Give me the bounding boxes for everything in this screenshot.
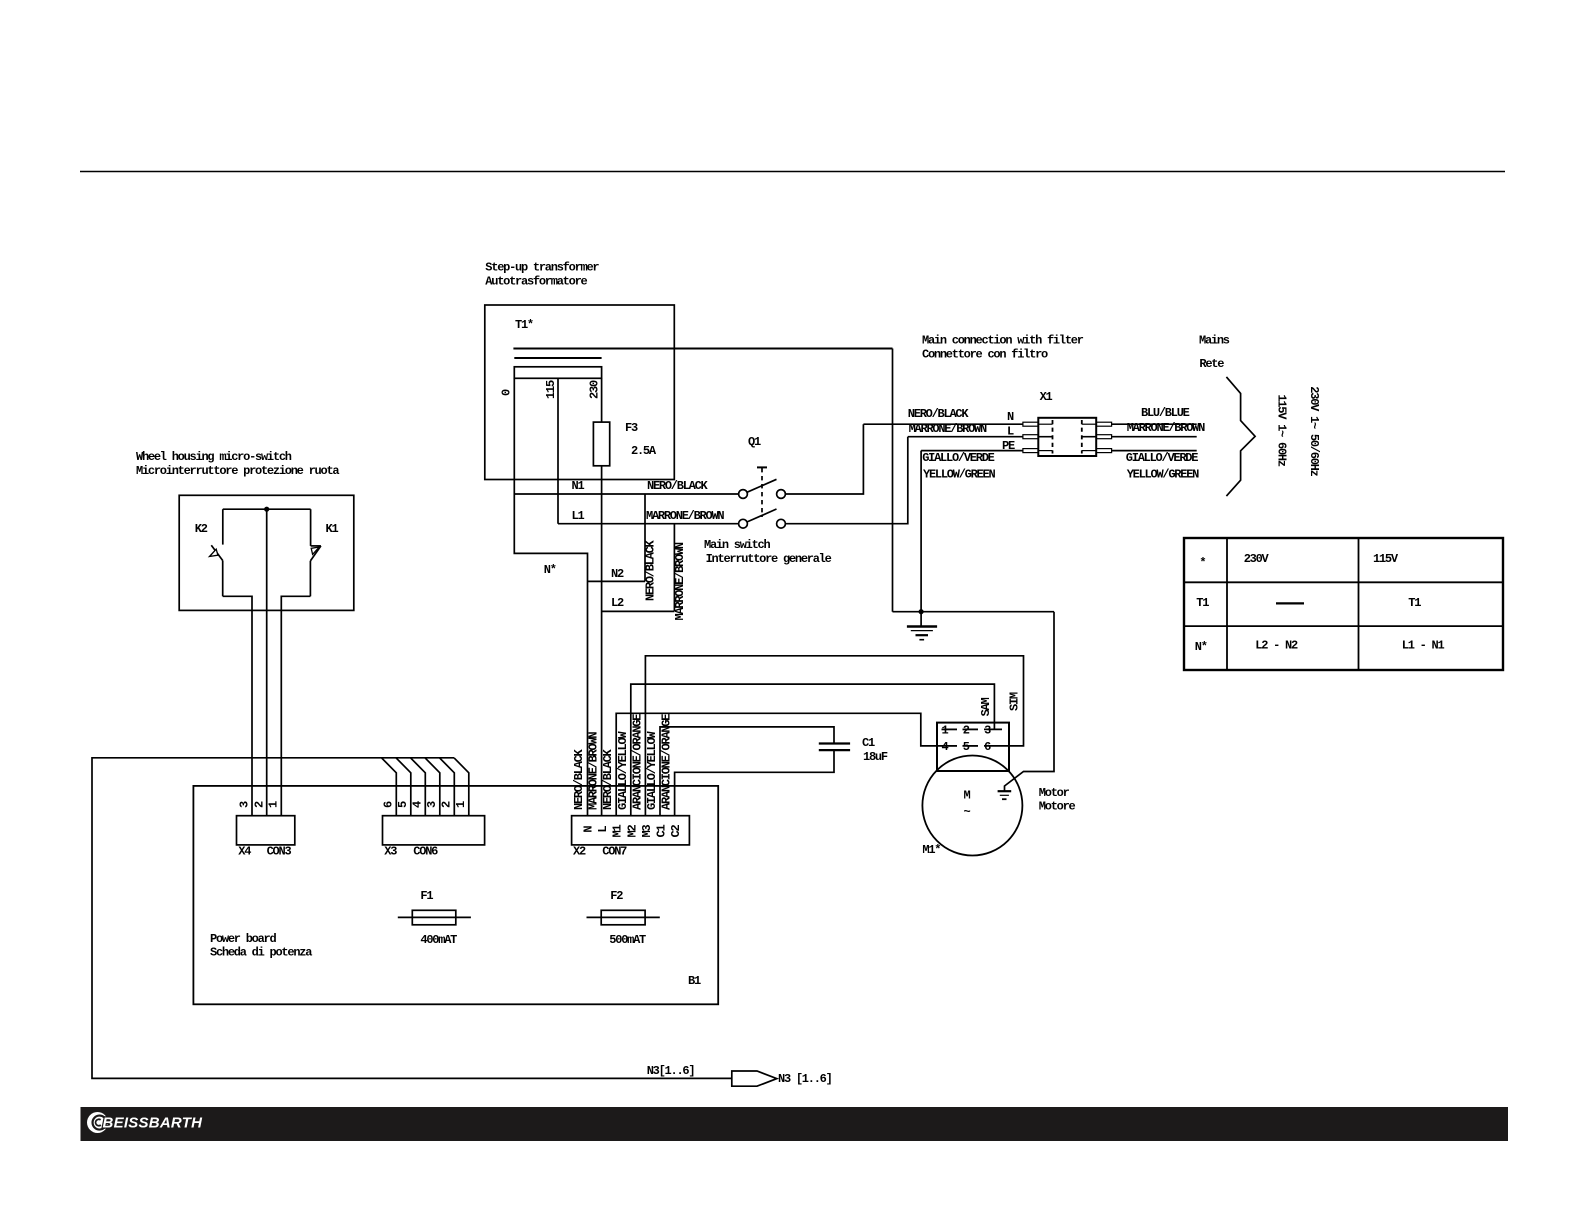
svg-text:0: 0 (500, 389, 514, 396)
svg-text:PE: PE (1002, 439, 1015, 453)
svg-text:230: 230 (588, 380, 602, 399)
label main switch (704, 538, 832, 566)
transformer primary bar (514, 357, 601, 359)
node: PE ground junction (919, 609, 924, 614)
svg-text:X2: X2 (573, 845, 586, 859)
svg-text:X1: X1 (1040, 390, 1053, 404)
wire: C1 feed to capacitor (660, 727, 834, 816)
svg-text:N*: N* (1195, 640, 1207, 654)
label F3 2.5A (625, 421, 657, 458)
svg-text:230V: 230V (1244, 552, 1270, 566)
svg-text:NERO/BLACK: NERO/BLACK (908, 407, 970, 421)
svg-text:T1: T1 (1196, 596, 1209, 610)
wire: K2 to X4 pin 3 (223, 596, 252, 815)
main switch Q1 (739, 467, 786, 528)
svg-text:K1: K1 (326, 522, 339, 536)
ground symbol motor (998, 791, 1012, 799)
motor terminal block (937, 723, 1009, 771)
transformer winding (514, 367, 601, 379)
svg-text:1: 1 (454, 801, 468, 808)
connector X4 CON3 (237, 816, 295, 845)
svg-text:2: 2 (252, 801, 266, 808)
wire N2 (588, 580, 646, 582)
svg-text:F3: F3 (625, 421, 638, 435)
svg-text:ARANCIONE/ORANGE: ARANCIONE/ORANGE (660, 714, 674, 810)
X4 pin labels 3 2 1 (237, 801, 280, 808)
X3 wires from bus (382, 758, 469, 816)
wire: filter input L (908, 436, 1023, 438)
svg-text:N: N (1007, 410, 1014, 424)
svg-text:SIM: SIM (1008, 692, 1022, 711)
svg-text:NERO/BLACK: NERO/BLACK (643, 539, 657, 601)
svg-text:~: ~ (964, 805, 971, 819)
wire: filter input PE (921, 450, 1023, 452)
svg-text:NERO/BLACK: NERO/BLACK (572, 748, 586, 810)
svg-text:2: 2 (440, 801, 454, 808)
fuse F3 (593, 422, 609, 466)
svg-text:N*: N* (544, 563, 556, 577)
svg-text:3: 3 (984, 724, 991, 738)
svg-text:F2: F2 (610, 889, 623, 903)
svg-text:N3 [1..6]: N3 [1..6] (778, 1072, 832, 1086)
svg-text:115V 1~ 60Hz: 115V 1~ 60Hz (1275, 394, 1289, 466)
svg-text:GIALLO/YELLOW: GIALLO/YELLOW (616, 731, 630, 810)
svg-text:L1 - N1: L1 - N1 (1402, 639, 1445, 653)
svg-text:Scheda di potenza: Scheda di potenza (210, 946, 312, 960)
svg-text:1: 1 (942, 724, 949, 738)
svg-text:T1: T1 (1408, 596, 1421, 610)
svg-text:5: 5 (963, 740, 970, 754)
svg-text:C2: C2 (669, 825, 683, 838)
svg-text:NERO/BLACK: NERO/BLACK (647, 479, 709, 493)
svg-text:4: 4 (942, 740, 949, 754)
svg-text:SAM: SAM (979, 697, 993, 716)
wire: micro-switch common top bar (223, 508, 311, 510)
micro-switch enclosure box (179, 495, 354, 610)
mains brace (1226, 377, 1255, 496)
capacitor C1 (819, 744, 850, 751)
wire: capacitor to C2 pin (675, 750, 834, 816)
wire: L1 after switch up to filter L (785, 437, 907, 524)
table dash (230V/T1 cell) (1276, 602, 1304, 604)
svg-text:ARANCIONE/ORANGE: ARANCIONE/ORANGE (630, 714, 644, 810)
svg-text:MARRONE/BROWN: MARRONE/BROWN (646, 509, 724, 523)
svg-text:2: 2 (963, 724, 970, 738)
N3 bus wire (92, 758, 731, 1079)
svg-text:18uF: 18uF (863, 750, 888, 764)
svg-text:MARRONE/BROWN: MARRONE/BROWN (587, 732, 601, 810)
page top rule (80, 171, 1505, 173)
svg-text:Step-up transformer: Step-up transformer (485, 261, 599, 275)
svg-text:Connettore con filtro: Connettore con filtro (922, 348, 1048, 362)
N3 flag (732, 1071, 777, 1086)
fuse F2 (587, 910, 660, 925)
svg-text:GIALLO/VERDE: GIALLO/VERDE (1126, 451, 1198, 465)
svg-text:6: 6 (984, 740, 991, 754)
fuse F1 (398, 910, 471, 925)
label: wheel housing micro-switch title (136, 450, 339, 478)
wire: filter input N (863, 423, 1023, 425)
wire: tap 230 to fuse F3 (601, 378, 603, 422)
wire: PE down to ground node (920, 451, 922, 612)
svg-text:YELLOW/GREEN: YELLOW/GREEN (1127, 468, 1199, 482)
label Mains / Rete (1199, 334, 1230, 372)
svg-text:Microinterruttore protezione r: Microinterruttore protezione ruota (136, 464, 339, 478)
switch K2 (210, 509, 223, 596)
svg-text:YELLOW/GREEN: YELLOW/GREEN (923, 468, 995, 482)
svg-text:X4: X4 (238, 845, 251, 859)
svg-text:C1: C1 (655, 825, 669, 838)
svg-text:MARRONE/BROWN: MARRONE/BROWN (909, 422, 987, 436)
wire: M2 feed to SAM (631, 684, 995, 816)
svg-text:L: L (1007, 425, 1014, 439)
svg-text:3: 3 (237, 801, 251, 808)
svg-text:M1: M1 (611, 825, 625, 838)
svg-text:400mAT: 400mAT (420, 933, 457, 947)
wire: filter output N (1112, 423, 1197, 425)
wire L2 (602, 610, 675, 612)
connector X3 CON6 (383, 816, 485, 845)
svg-text:B1: B1 (688, 974, 701, 988)
svg-text:T1*: T1* (515, 318, 533, 332)
svg-text:Power board: Power board (210, 932, 277, 946)
svg-text:Mains: Mains (1199, 334, 1230, 348)
terminal pin numbers (942, 724, 992, 755)
wire: filter output PE (1112, 450, 1197, 452)
svg-text:C1: C1 (862, 736, 875, 750)
connector X2 CON7 (572, 816, 690, 845)
switch K1 (310, 509, 321, 596)
svg-text:3: 3 (425, 801, 439, 808)
svg-text:500mAT: 500mAT (609, 933, 646, 947)
svg-text:L2 - N2: L2 - N2 (1255, 639, 1298, 653)
svg-text:X3: X3 (384, 845, 397, 859)
svg-text:6: 6 (382, 801, 396, 808)
svg-text:Main connection with filter: Main connection with filter (922, 334, 1084, 348)
svg-text:CON7: CON7 (602, 845, 627, 859)
svg-text:L2: L2 (611, 596, 624, 610)
svg-text:4: 4 (411, 801, 425, 808)
wire: common junction down to X4 pin 2 (266, 509, 268, 816)
wire: fuse F3 to L2 node to X2 pin L (601, 466, 603, 816)
svg-text:GIALLO/VERDE: GIALLO/VERDE (922, 451, 994, 465)
svg-text:230V 1~ 50/60Hz: 230V 1~ 50/60Hz (1307, 386, 1321, 476)
wire: tap 115 down to L1 (557, 378, 559, 523)
svg-text:BLU/BLUE: BLU/BLUE (1141, 406, 1190, 420)
transformer T1 box (485, 305, 675, 480)
svg-text:Wheel housing micro-switch: Wheel housing micro-switch (136, 450, 292, 464)
label: step-up transformer title (485, 261, 599, 289)
filter X1 (1023, 418, 1112, 456)
ground symbol PE (907, 612, 937, 640)
svg-text:2.5A: 2.5A (631, 444, 657, 458)
svg-text:Motore: Motore (1039, 800, 1076, 814)
svg-text:*: * (1199, 556, 1205, 570)
X3 pin labels 6..1 (382, 801, 469, 808)
svg-text:115V: 115V (1373, 552, 1399, 566)
wire: NERO/BLACK drop N1 to N2 (644, 494, 646, 581)
svg-text:115: 115 (544, 380, 558, 399)
svg-text:BEISSBARTH: BEISSBARTH (103, 1114, 204, 1131)
svg-text:MARRONE/BROWN: MARRONE/BROWN (673, 542, 687, 620)
wire: K1 to X4 pin 1 (281, 596, 310, 815)
footer black bar (81, 1107, 1509, 1141)
wire: screen to ground bus (892, 349, 894, 612)
wire: MARRONE/BROWN drop L1 to L2 (673, 524, 675, 612)
X2 pin name labels (581, 825, 683, 838)
wire: ground bus to motor frame (1005, 612, 1055, 792)
svg-text:N1: N1 (572, 479, 585, 493)
wire: filter output L (1112, 436, 1197, 438)
wire L1 (558, 523, 739, 525)
logo beissbarth (87, 1112, 203, 1133)
wire: ground bus (893, 611, 1055, 613)
svg-text:M1*: M1* (922, 843, 940, 857)
svg-text:NERO/BLACK: NERO/BLACK (601, 748, 615, 810)
svg-text:Main switch: Main switch (704, 538, 771, 552)
svg-text:N3[1..6]: N3[1..6] (647, 1064, 695, 1078)
wire: tap 0 to node N* to X2 pin N (514, 378, 587, 815)
label: main connection with filter title (922, 334, 1084, 362)
svg-text:K2: K2 (195, 522, 208, 536)
svg-text:N2: N2 (611, 567, 624, 581)
wire N1 (514, 493, 738, 495)
X2 wire labels (vertical) (572, 714, 674, 810)
svg-text:CON3: CON3 (267, 845, 292, 859)
svg-text:N: N (581, 826, 595, 833)
svg-text:L: L (596, 826, 610, 833)
transformer screen line (513, 348, 892, 350)
svg-text:Rete: Rete (1199, 357, 1224, 371)
wire: N1 after switch up to filter N (785, 424, 863, 494)
power board box B1 (193, 786, 718, 1004)
label C1 18uF (862, 736, 888, 764)
svg-text:CON6: CON6 (413, 845, 438, 859)
svg-text:M: M (964, 789, 971, 803)
svg-text:M3: M3 (640, 825, 654, 838)
svg-text:GIALLO/YELLOW: GIALLO/YELLOW (645, 731, 659, 810)
wire: M3 feed to SIM (645, 656, 1023, 816)
svg-text:1: 1 (267, 801, 281, 808)
svg-text:Autotrasformatore: Autotrasformatore (485, 275, 587, 289)
svg-text:MARRONE/BROWN: MARRONE/BROWN (1127, 421, 1205, 435)
motor M1 (922, 756, 1022, 856)
svg-text:F1: F1 (420, 889, 433, 903)
wire: M1 feed to terminal 4 (616, 713, 941, 815)
svg-text:5: 5 (396, 801, 410, 808)
voltage table (1184, 538, 1503, 670)
svg-text:L1: L1 (572, 509, 585, 523)
svg-text:Motor: Motor (1039, 786, 1070, 800)
svg-text:Interruttore generale: Interruttore generale (706, 552, 832, 566)
svg-text:M2: M2 (625, 825, 639, 838)
node: common junction dot (264, 507, 269, 512)
svg-text:Q1: Q1 (748, 435, 761, 449)
